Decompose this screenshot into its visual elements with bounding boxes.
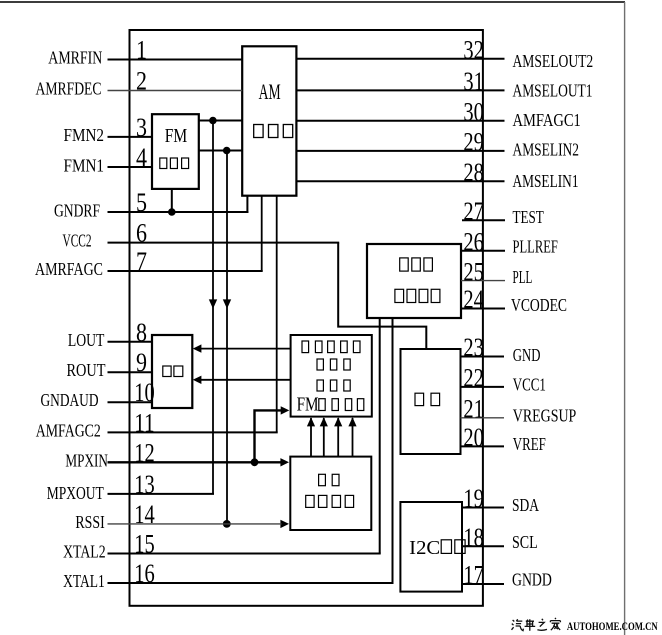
wire FM IF to audio L	[196, 348, 291, 350]
wire stereo to FM IF line2	[323, 418, 325, 457]
svg-text:LOUT: LOUT	[68, 330, 105, 350]
svg-text:AMSELOUT2: AMSELOUT2	[513, 51, 594, 71]
svg-text:26: 26	[463, 227, 484, 256]
svg-text:ROUT: ROUT	[67, 360, 106, 380]
svg-text:AMSELIN1: AMSELIN1	[513, 171, 579, 191]
arrowhead down on wire B	[223, 299, 231, 308]
wire stereo to FM IF line1	[310, 418, 312, 457]
pin 23 GND	[461, 333, 541, 365]
IC outer border	[130, 30, 483, 606]
wire vertical B from J2 to RSSI	[226, 151, 228, 524]
svg-text:14: 14	[134, 500, 155, 529]
arrowhead MPXIN into stereo	[280, 458, 289, 466]
svg-text:25: 25	[463, 257, 484, 286]
svg-text:FMN1: FMN1	[64, 156, 105, 176]
svg-text:TEST: TEST	[513, 207, 544, 227]
junction dot J3	[168, 208, 176, 216]
svg-text:AMSELIN2: AMSELIN2	[513, 139, 580, 159]
svg-text:SDA: SDA	[512, 495, 539, 515]
svg-text:VCC2: VCC2	[63, 231, 92, 251]
svg-text:17: 17	[463, 561, 484, 590]
AM front-end block U-AM	[242, 46, 296, 195]
pin 6 VCC2	[63, 219, 340, 251]
svg-text:AM: AM	[259, 79, 281, 104]
pin 3 FMN2	[64, 113, 153, 145]
wire FM out1 to AM	[198, 120, 242, 122]
svg-text:RSSI: RSSI	[75, 512, 104, 532]
svg-text:AMSELOUT1: AMSELOUT1	[513, 81, 593, 101]
pin 16 XTAL1	[63, 559, 393, 591]
wire VCC2 route to regulator top	[338, 243, 426, 350]
svg-text:AUTOHOME.COM.CN: AUTOHOME.COM.CN	[567, 619, 658, 633]
wire FM out2 to AM	[198, 150, 242, 152]
pin 22 VCC1	[461, 364, 546, 395]
svg-text:32: 32	[463, 35, 484, 64]
pin 8 LOUT	[68, 318, 152, 350]
svg-text:3: 3	[136, 113, 147, 142]
svg-text:23: 23	[463, 333, 484, 362]
svg-text:1: 1	[136, 36, 147, 65]
svg-text:21: 21	[463, 395, 484, 424]
pin 1 AMRFIN	[48, 36, 242, 68]
PLL synthesizer block	[367, 244, 461, 318]
pin 26 PLLREF	[461, 227, 558, 256]
pin 24 VCODEC	[461, 285, 567, 315]
FM front-end block U-FM	[152, 114, 199, 189]
svg-text:29: 29	[463, 128, 484, 157]
svg-text:10: 10	[134, 378, 155, 407]
pin 14 RSSI	[75, 500, 281, 532]
svg-text:27: 27	[463, 197, 484, 226]
arrowhead RSSI into stereo	[280, 520, 289, 528]
stereo decoder block	[290, 457, 371, 530]
arrowhead up 2	[320, 417, 328, 426]
svg-text:SCL: SCL	[512, 532, 538, 552]
pin 5 GNDRF	[54, 188, 248, 221]
pin 18 SCL	[462, 523, 538, 552]
svg-text:19: 19	[463, 484, 484, 513]
pin 29 AMSELIN2	[296, 128, 579, 160]
svg-text:I2C: I2C	[409, 537, 440, 559]
svg-text:9: 9	[136, 348, 147, 377]
svg-text:FMN2: FMN2	[64, 125, 105, 145]
wire XTAL1 riser to PLL bottom	[392, 317, 394, 583]
pin 17 GNDD	[462, 561, 552, 590]
pin 20 VREF	[461, 423, 546, 454]
arrowhead into audio R bottom	[193, 376, 202, 384]
svg-text:4: 4	[136, 143, 147, 172]
svg-text:AMRFIN: AMRFIN	[48, 48, 102, 68]
svg-text:MPXIN: MPXIN	[65, 450, 108, 470]
watermark jia char	[550, 618, 560, 630]
junction dot J2	[223, 147, 231, 155]
svg-text:22: 22	[463, 364, 484, 393]
svg-text:11: 11	[134, 408, 155, 437]
svg-text:GNDRF: GNDRF	[54, 201, 100, 221]
svg-text:FM: FM	[165, 125, 188, 147]
frame right line	[624, 2, 626, 635]
svg-text:FM: FM	[297, 394, 319, 416]
svg-text:2: 2	[136, 67, 147, 96]
arrowhead up 3	[334, 417, 342, 426]
svg-text:28: 28	[463, 158, 484, 187]
pin 13 MPXOUT	[47, 470, 214, 503]
wire FM block ground stub	[171, 189, 173, 212]
wire AMFAGC2 riser into AM bottom	[276, 196, 278, 433]
wire GNDRF riser into AM bottom	[246, 196, 248, 214]
I2C interface block	[400, 502, 465, 592]
pin 7 AMRFAGC	[35, 247, 263, 279]
audio block	[152, 335, 192, 408]
svg-text:AMRFDEC: AMRFDEC	[36, 79, 102, 99]
svg-text:AMFAGC2: AMFAGC2	[36, 420, 101, 440]
pin 19 SDA	[462, 484, 539, 515]
wire stereo to FM IF line4	[352, 418, 354, 457]
svg-text:15: 15	[134, 530, 155, 559]
svg-text:PLLREF: PLLREF	[513, 237, 558, 257]
svg-text:20: 20	[463, 423, 484, 452]
wire FM IF to audio R	[196, 379, 291, 381]
watermark zhi char	[537, 619, 547, 631]
frame top line	[0, 1, 625, 3]
watermark qi char	[512, 619, 524, 631]
pin 2 AMRFDEC	[36, 67, 243, 99]
svg-text:VCODEC: VCODEC	[511, 295, 567, 315]
svg-text:GNDAUD: GNDAUD	[41, 390, 99, 410]
junction dot J1	[209, 117, 217, 125]
arrowhead into audio R top	[193, 344, 202, 352]
pin 27 TEST	[462, 197, 544, 227]
pin 15 XTAL2	[63, 530, 381, 562]
svg-text:18: 18	[463, 523, 484, 552]
svg-text:12: 12	[134, 438, 155, 467]
svg-text:24: 24	[463, 285, 484, 314]
svg-text:31: 31	[463, 67, 484, 96]
svg-text:AMFAGC1: AMFAGC1	[513, 110, 581, 130]
watermark che char	[525, 619, 536, 631]
pin 21 VREGSUP	[461, 395, 577, 426]
wire AMRFAGC riser into AM bottom	[261, 196, 263, 272]
arrowhead down on wire A	[209, 299, 217, 308]
arrowhead up 4	[348, 417, 356, 426]
svg-text:XTAL1: XTAL1	[63, 571, 105, 591]
svg-text:MPXOUT: MPXOUT	[47, 483, 104, 503]
svg-text:30: 30	[463, 97, 484, 126]
svg-text:6: 6	[136, 219, 147, 248]
pin 10 GNDAUD	[41, 378, 155, 410]
svg-text:VREF: VREF	[513, 434, 546, 454]
svg-text:7: 7	[136, 247, 147, 276]
pin 12 MPXIN	[65, 438, 281, 470]
pin 28 AMSELIN1	[296, 158, 578, 191]
svg-text:5: 5	[136, 188, 147, 217]
svg-text:GNDD: GNDD	[512, 569, 552, 589]
svg-text:8: 8	[136, 318, 147, 347]
FM IF demod block	[291, 335, 372, 417]
junction dot J5	[223, 520, 231, 528]
pin 31 AMSELOUT1	[296, 67, 592, 101]
svg-text:AMRFAGC: AMRFAGC	[35, 259, 103, 279]
wire MPXIN branch to FM IF block	[255, 410, 284, 462]
pin 30 AMFAGC1	[296, 97, 580, 130]
svg-text:13: 13	[134, 470, 155, 499]
arrowhead up 1	[307, 417, 315, 426]
svg-text:GND: GND	[513, 345, 541, 365]
svg-text:16: 16	[134, 559, 155, 588]
junction dot J4	[251, 458, 259, 466]
svg-text:VCC1: VCC1	[513, 374, 546, 394]
pin 32 AMSELOUT2	[296, 35, 593, 71]
wire stereo to FM IF line3	[337, 418, 339, 457]
wire XTAL2 riser to PLL bottom	[379, 317, 381, 553]
svg-text:VREGSUP: VREGSUP	[513, 405, 577, 425]
svg-text:PLL: PLL	[513, 267, 533, 287]
pin 9 ROUT	[67, 348, 153, 380]
wire vertical A from J1 to MPXOUT	[212, 121, 214, 494]
pin 4 FMN1	[64, 143, 153, 176]
pin 11 AMFAGC2	[36, 408, 278, 440]
svg-text:XTAL2: XTAL2	[63, 542, 106, 562]
voltage regulator block	[401, 349, 461, 454]
pin 25 PLL	[461, 257, 532, 287]
arrowhead into FM IF left	[281, 406, 290, 414]
